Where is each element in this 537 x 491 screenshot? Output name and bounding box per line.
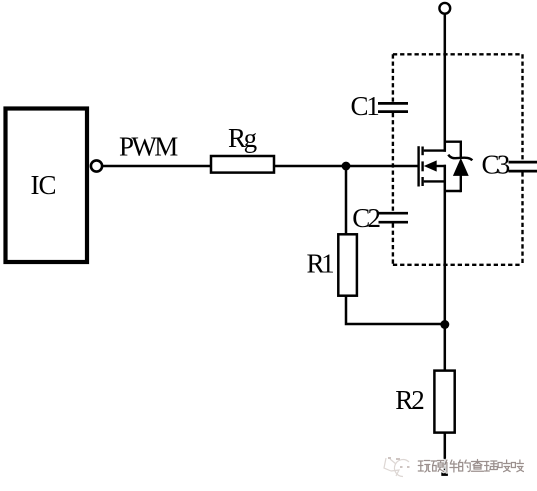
svg-text:PWM: PWM xyxy=(119,132,178,162)
svg-text:C2: C2 xyxy=(352,203,380,233)
svg-text:R2: R2 xyxy=(395,385,424,415)
svg-text:C1: C1 xyxy=(351,91,379,121)
svg-text:C3: C3 xyxy=(482,150,510,180)
svg-text:IC: IC xyxy=(31,170,56,200)
svg-text:R1: R1 xyxy=(307,249,334,279)
svg-text:Rg: Rg xyxy=(228,123,257,153)
